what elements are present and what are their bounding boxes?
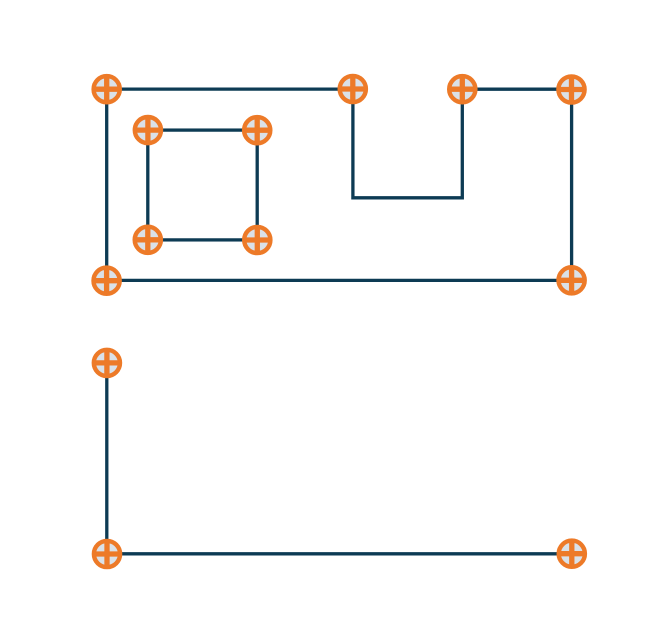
wire A-E (left vertical)	[105, 89, 108, 281]
node K (lower shape top-left)	[92, 348, 121, 377]
node E (upper shape bottom-left)	[92, 266, 121, 295]
node I (inner square bottom-left)	[133, 225, 162, 254]
wire L-M (lower horizontal)	[107, 552, 572, 555]
node C (upper shape top, notch right)	[448, 75, 477, 104]
wire K-L (lower left vertical)	[105, 363, 108, 554]
node F (upper shape bottom-right)	[557, 266, 586, 295]
node L (lower shape bottom-left)	[92, 539, 121, 568]
wire inner square G-H-J-I	[148, 130, 257, 240]
wire D-F (right vertical)	[570, 89, 573, 280]
node B (upper shape top, notch left)	[338, 74, 367, 103]
node M (lower shape bottom-right)	[557, 539, 586, 568]
node G (inner square top-left)	[133, 116, 162, 145]
wire A-B (top horizontal, left segment)	[107, 87, 353, 90]
node J (inner square bottom-right)	[243, 225, 272, 254]
node H (inner square top-right)	[243, 116, 272, 145]
wire E-F (bottom horizontal of upper shape)	[107, 279, 572, 282]
wire U-notch B down, across, up to C	[353, 89, 462, 198]
node A (upper shape top-left)	[92, 75, 121, 104]
wire C-D (top horizontal, right segment)	[462, 88, 571, 91]
node D (upper shape top-right)	[557, 75, 586, 104]
